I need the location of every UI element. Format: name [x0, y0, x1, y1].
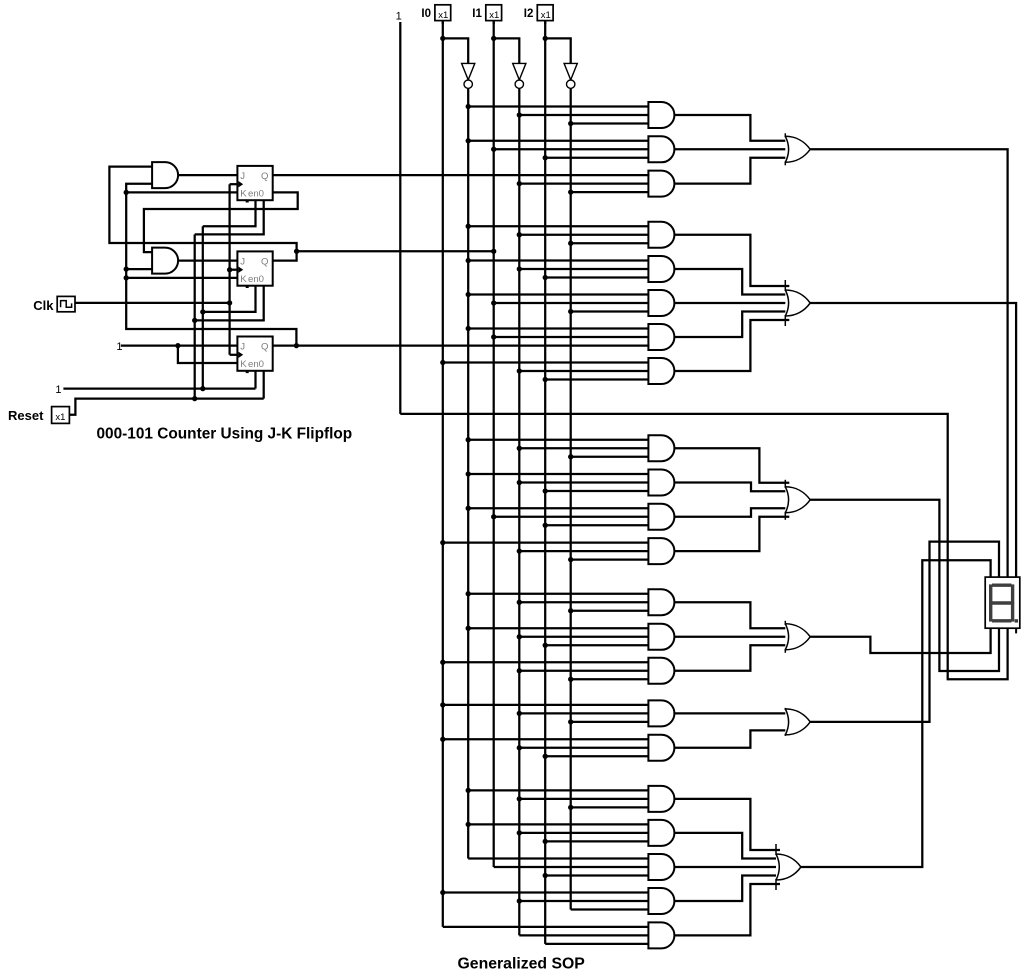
and-gate U22	[648, 922, 674, 948]
wire AND10 input 3	[545, 490, 649, 492]
junction AND16 input 3 tap	[568, 719, 573, 724]
wire AND12 input 3	[571, 558, 650, 560]
wire AND21 input 1	[443, 891, 650, 893]
junction AND3 input 2 tap	[517, 181, 522, 186]
jk-flipflop FF1 Kien0	[237, 166, 272, 201]
svg-text:Q: Q	[261, 257, 268, 268]
wire AND18 input 2	[519, 798, 649, 800]
wire AND5 input 1	[468, 259, 649, 261]
junction AND12 input 2 tap	[517, 548, 522, 553]
wire AND17 input 1	[443, 738, 650, 740]
junction Q1 branch	[294, 249, 299, 254]
junction AND14 input 1 tap	[466, 626, 471, 631]
inverter U_inv1	[513, 63, 526, 88]
wire AND6 input 1	[468, 293, 649, 295]
svg-text:I0: I0	[421, 8, 431, 20]
wire AND9 input 1	[468, 439, 649, 441]
junction AND5 input 2 tap	[517, 266, 522, 271]
svg-text:1: 1	[396, 11, 402, 23]
wire AND20 input 2	[494, 866, 650, 868]
and-gate U12	[648, 538, 674, 564]
svg-text:x1: x1	[541, 10, 551, 21]
svg-text:K: K	[240, 274, 247, 285]
junction AND17 input 2 tap	[517, 745, 522, 750]
junction AND19 input 1 tap	[466, 822, 471, 827]
input pin I1	[472, 5, 501, 24]
wire bus I2' (inverted)	[570, 88, 572, 909]
svg-text:I2: I2	[524, 8, 534, 20]
wire A_A output to FF1 J	[178, 174, 237, 176]
and-gate U8	[648, 358, 674, 384]
junction AND2 input 2 tap	[491, 147, 496, 152]
wire Q2 to FF2 K	[126, 277, 237, 279]
junction AND18 input 2 tap	[517, 796, 522, 801]
or-gate OR6	[776, 844, 801, 890]
wire A_B output to FF2 J	[178, 259, 237, 261]
wire AND19 input 1	[468, 823, 649, 825]
svg-text:x1: x1	[489, 10, 499, 21]
and-gate A_A (J1 logic)	[152, 162, 178, 188]
junction AND8 input 1 tap	[440, 360, 445, 365]
wire AND1 input 3	[571, 122, 650, 124]
wire AND1 output to OR1	[674, 115, 789, 141]
wire AND20 output to OR6	[674, 866, 780, 868]
or-gate OR1	[785, 133, 810, 165]
wire Q2 to FF1 K	[126, 191, 237, 193]
junction AND14 input 3 tap	[543, 643, 548, 648]
wire AND4 input 2	[519, 234, 649, 236]
junction AND4 input 2 tap	[517, 232, 522, 237]
junction AND18 input 3 tap	[568, 805, 573, 810]
junction AND8 input 2 tap	[517, 368, 522, 373]
junction AND12 input 3 tap	[568, 557, 573, 562]
junction AND15 input 2 tap	[517, 668, 522, 673]
junction AND2 input 1 tap	[466, 138, 471, 143]
or-gate OR4	[785, 621, 810, 653]
wire AND14 output to OR4	[674, 636, 789, 638]
wire OR3 output to display pin B2	[810, 500, 999, 671]
wire bus I1' (inverted)	[518, 88, 520, 935]
wire AND7 input 1	[468, 327, 649, 329]
or-gate OR5	[785, 708, 810, 736]
junction Q2 at FF1 K	[124, 190, 129, 195]
junction AND10 input 2 tap	[517, 480, 522, 485]
input pin I2	[524, 5, 553, 24]
input pin Reset	[8, 407, 69, 424]
svg-text:1: 1	[116, 341, 122, 353]
wire AND17 input 2	[519, 747, 649, 749]
wire OR4 output to display pin B1	[810, 628, 990, 653]
junction AND19 input 3 tap	[543, 839, 548, 844]
junction AND4 input 1 tap	[466, 224, 471, 229]
wire AND12 input 1	[443, 541, 650, 543]
wire AND21 output to OR6	[674, 876, 780, 902]
junction AND5 input 1 tap	[466, 258, 471, 263]
wire enable to FF2 south	[203, 286, 256, 312]
and-gate U16	[648, 700, 674, 726]
or-gate OR2	[785, 280, 810, 326]
junction AND12 input 1 tap	[440, 540, 445, 545]
wire constant-1 to FF3 J	[121, 344, 238, 346]
wire reset net riser	[194, 234, 196, 398]
wire bus constant-1 vertical	[399, 22, 401, 414]
wire AND15 input 3	[571, 678, 650, 680]
junction AND13 input 2 tap	[517, 600, 522, 605]
wire AND9 input 3	[571, 456, 650, 458]
wire AND15 input 2	[519, 670, 649, 672]
svg-text:J: J	[240, 257, 245, 268]
wire AND9 input 2	[519, 447, 649, 449]
wire AND8 input 3	[545, 378, 649, 380]
svg-text:I1: I1	[472, 8, 482, 20]
and-gate U1	[648, 102, 674, 128]
wire constant-1 branch to FF3 K	[178, 346, 238, 363]
wire Q2 from FF3 to AND7 (node Q2)	[273, 344, 650, 346]
inverter U_inv0	[462, 63, 475, 88]
and-gate U20	[648, 854, 674, 880]
wire reset net from pin	[69, 399, 263, 415]
svg-text:Q: Q	[261, 342, 268, 353]
wire bus I0	[442, 21, 444, 927]
wire AND22 output to OR6	[674, 884, 780, 935]
wire I0 to inverter	[443, 38, 468, 63]
junction AND15 input 1 tap	[440, 660, 445, 665]
wire AND11 input 1	[468, 507, 649, 509]
junction I2 inverter tap	[543, 36, 548, 41]
and-gate U18	[648, 786, 674, 812]
wire Clk net vertical	[228, 184, 230, 355]
wire AND14 input 2	[519, 636, 649, 638]
input pin I0	[421, 5, 450, 24]
wire AND12 input 2	[519, 550, 649, 552]
wire enable net riser	[202, 226, 204, 388]
junction AND6 input 3 tap	[568, 309, 573, 314]
wire AND7 input 2	[494, 336, 650, 338]
junction enable FF2 tap	[200, 309, 205, 314]
and-gate U14	[648, 624, 674, 650]
wire Clk to FF2 clock	[230, 269, 238, 271]
and-gate U4	[648, 222, 674, 248]
svg-text:en0: en0	[248, 274, 264, 285]
and-gate U15	[648, 658, 674, 684]
wire bus I1	[493, 21, 495, 867]
wire AND15 output to OR4	[674, 645, 789, 671]
junction AND5 input 3 tap	[543, 275, 548, 280]
wire AND7 output to OR2	[674, 312, 789, 338]
junction AND2 input 3 tap	[543, 155, 548, 160]
junction AND13 input 1 tap	[466, 591, 471, 596]
and-gate U3	[648, 171, 674, 197]
wire AND13 output to OR4	[674, 602, 789, 628]
junction AND1 input 3 tap	[568, 121, 573, 126]
wire AND10 input 1	[468, 473, 649, 475]
wire Clk net horizontal	[75, 302, 230, 304]
wire AND10 input 2	[519, 481, 649, 483]
wire AND6 output to OR2	[674, 302, 789, 304]
wire AND21 input 2	[519, 900, 649, 902]
wire AND4 input 3	[571, 242, 650, 244]
wire AND13 input 2	[519, 601, 649, 603]
junction AND18 input 1 tap	[466, 788, 471, 793]
junction AND11 input 2 tap	[491, 514, 496, 519]
wire AND8 input 2	[519, 370, 649, 372]
wire Q1 feedback to A_A input	[109, 167, 296, 252]
wire reset to FF1 south	[195, 200, 264, 234]
wire AND2 output to OR1	[674, 148, 789, 150]
junction Clk at FF2	[227, 267, 232, 272]
wire AND13 input 3	[571, 610, 650, 612]
wire AND17 input 3	[545, 755, 649, 757]
wire AND11 input 2	[494, 516, 650, 518]
wire OR1 output to display pin T3	[810, 149, 1007, 577]
wire AND16 input 1	[443, 704, 650, 706]
junction AND17 input 3 tap	[543, 754, 548, 759]
wire AND22 input 3	[545, 943, 649, 945]
wire AND22 input 1	[443, 926, 650, 928]
wire AND20 input 1	[468, 857, 649, 859]
junction reset bottom	[192, 396, 197, 401]
svg-text:1: 1	[55, 384, 61, 396]
junction AND9 input 2 tap	[517, 446, 522, 451]
wire reset to FF2 south	[195, 286, 264, 321]
junction AND6 input 2 tap	[491, 300, 496, 305]
wire AND5 input 3	[545, 276, 649, 278]
wire AND16 input 2	[519, 712, 649, 714]
junction AND4 input 3 tap	[568, 241, 573, 246]
junction AND13 input 3 tap	[568, 608, 573, 613]
wire AND15 input 1	[443, 661, 650, 663]
wire AND9 output to OR3	[674, 448, 789, 483]
svg-text:Reset: Reset	[8, 408, 44, 423]
junction AND8 input 3 tap	[543, 377, 548, 382]
wire AND3 input 3	[571, 191, 650, 193]
wire Q0 from FF1 to AND3 (node Q0)	[273, 174, 650, 176]
inverter U_inv2	[564, 63, 577, 88]
wire Q1 from FF2 to I1 bus (node Q1)	[273, 251, 494, 260]
wire OR6 output to display pin T1	[801, 560, 991, 867]
wire AND20 input 3	[545, 874, 649, 876]
wire AND8 input 1	[443, 361, 650, 363]
junction AND20 input 3 tap	[543, 873, 548, 878]
junction AND7 input 2 tap	[491, 334, 496, 339]
junction AND11 input 1 tap	[466, 506, 471, 511]
or-gate OR3	[785, 480, 810, 520]
svg-text:K: K	[240, 359, 247, 370]
wire AND18 input 3	[571, 806, 650, 808]
svg-text:en0: en0	[248, 359, 264, 370]
wire AND22 input 2	[519, 934, 649, 936]
and-gate U2	[648, 136, 674, 162]
junction AND6 input 1 tap	[466, 292, 471, 297]
wire AND11 output to OR3	[674, 508, 789, 517]
wire AND6 input 3	[571, 310, 650, 312]
and-gate U13	[648, 589, 674, 615]
wire constant-1 to display pin B3	[400, 414, 1007, 679]
wire enable to FF1 south	[203, 200, 256, 226]
junction AND1 input 2 tap	[517, 112, 522, 117]
wire enable to FF3 south	[254, 371, 256, 389]
wire AND2 input 1	[468, 140, 649, 142]
wire AND14 input 1	[468, 627, 649, 629]
junction Q2 at A_B	[124, 266, 129, 271]
wire AND4 input 1	[468, 225, 649, 227]
wire AND5 output to OR2	[674, 269, 789, 295]
wire AND8 output to OR2	[674, 320, 789, 371]
wire AND12 output to OR3	[674, 517, 789, 551]
jk-flipflop FF2 Kien0	[237, 251, 272, 286]
junction AND14 input 2 tap	[517, 634, 522, 639]
svg-text:Generalized SOP: Generalized SOP	[458, 955, 585, 972]
svg-text:x1: x1	[55, 412, 65, 423]
svg-text:J: J	[240, 342, 245, 353]
wire AND2 input 2	[494, 148, 650, 150]
junction AND3 input 3 tap	[568, 189, 573, 194]
wire AND1 input 2	[519, 114, 649, 116]
wire OR5 output to display pin T2	[810, 542, 999, 722]
and-gate A_B (J2 logic)	[152, 248, 178, 274]
wire Clk to FF1 clock	[230, 183, 238, 185]
wire AND3 input 2	[519, 182, 649, 184]
junction AND16 input 2 tap	[517, 711, 522, 716]
junction AND9 input 3 tap	[568, 454, 573, 459]
wire AND19 input 3	[545, 840, 649, 842]
wire I2 to inverter	[545, 38, 571, 63]
wire Q2 feedback riser	[126, 184, 296, 346]
svg-text:x1: x1	[438, 10, 448, 21]
junction AND7 input 1 tap	[466, 326, 471, 331]
junction I0 inverter tap	[440, 36, 445, 41]
wire AND14 input 3	[545, 644, 649, 646]
junction Q2 at FF2 K	[124, 275, 129, 280]
and-gate U7	[648, 324, 674, 350]
wire AND17 output to OR5	[674, 730, 789, 747]
junction AND11 input 3 tap	[543, 523, 548, 528]
and-gate U10	[648, 470, 674, 496]
and-gate U6	[648, 290, 674, 316]
svg-text:Clk: Clk	[33, 298, 54, 313]
junction AND9 input 1 tap	[466, 437, 471, 442]
wire Q0' FF1 to A_B input	[144, 192, 298, 252]
junction const1 J3/K3	[175, 343, 180, 348]
wire Q2 to A_B input	[126, 268, 152, 270]
wire enable net horizontal	[63, 387, 255, 389]
junction enable bottom	[200, 386, 205, 391]
wire AND19 input 2	[519, 832, 649, 834]
wire reset to FF3 south	[263, 371, 265, 399]
wire AND19 output to OR6	[674, 833, 780, 859]
junction AND10 input 1 tap	[466, 471, 471, 476]
junction reset FF2 tap	[192, 318, 197, 323]
junction AND15 input 3 tap	[568, 677, 573, 682]
wire AND16 input 3	[571, 721, 650, 723]
junction Q2 branch	[294, 343, 299, 348]
and-gate U11	[648, 504, 674, 530]
and-gate U19	[648, 820, 674, 846]
wire AND16 output to OR5	[674, 712, 789, 714]
junction AND21 input 1 tap	[440, 890, 445, 895]
wire AND2 input 3	[545, 157, 649, 159]
junction AND1 input 1 tap	[466, 104, 471, 109]
junction AND19 input 2 tap	[517, 830, 522, 835]
svg-text:J: J	[240, 171, 245, 182]
junction Q1 at I1 bus	[491, 249, 496, 254]
svg-text:K: K	[240, 189, 247, 200]
junction AND10 input 3 tap	[543, 488, 548, 493]
wire Clk to FF3 clock	[230, 354, 238, 356]
wire AND4 output to OR2	[674, 235, 789, 286]
wire bus I0' (inverted)	[467, 88, 469, 858]
junction I1 inverter tap	[491, 36, 496, 41]
wire bus I2	[544, 21, 546, 944]
svg-text:en0: en0	[248, 189, 264, 200]
and-gate U17	[648, 735, 674, 761]
junction Clk feed	[227, 300, 232, 305]
wire AND18 output to OR6	[674, 799, 780, 850]
and-gate U9	[648, 435, 674, 461]
wire AND1 input 1	[468, 105, 649, 107]
junction AND17 input 1 tap	[440, 737, 445, 742]
wire AND11 input 3	[545, 524, 649, 526]
wire AND6 input 2	[494, 302, 650, 304]
wire OR2 output to display pin T4	[810, 303, 1016, 577]
wire AND5 input 2	[519, 268, 649, 270]
wire AND21 input 3	[571, 908, 650, 910]
wire AND18 input 1	[468, 789, 649, 791]
jk-flipflop FF3 Kien0	[237, 337, 272, 372]
wire AND10 output to OR3	[674, 483, 789, 492]
svg-text:000-101 Counter Using J-K Flip: 000-101 Counter Using J-K Flipflop	[97, 426, 353, 443]
input pin Clk	[33, 296, 75, 312]
wire AND3 output to OR1	[674, 158, 789, 184]
svg-text:Q: Q	[261, 171, 268, 182]
wire I1 to inverter	[494, 38, 520, 63]
and-gate U21	[648, 888, 674, 914]
7-segment display	[985, 577, 1020, 633]
and-gate U5	[648, 256, 674, 282]
junction AND21 input 2 tap	[517, 898, 522, 903]
junction AND16 input 1 tap	[440, 702, 445, 707]
wire AND13 input 1	[468, 593, 649, 595]
